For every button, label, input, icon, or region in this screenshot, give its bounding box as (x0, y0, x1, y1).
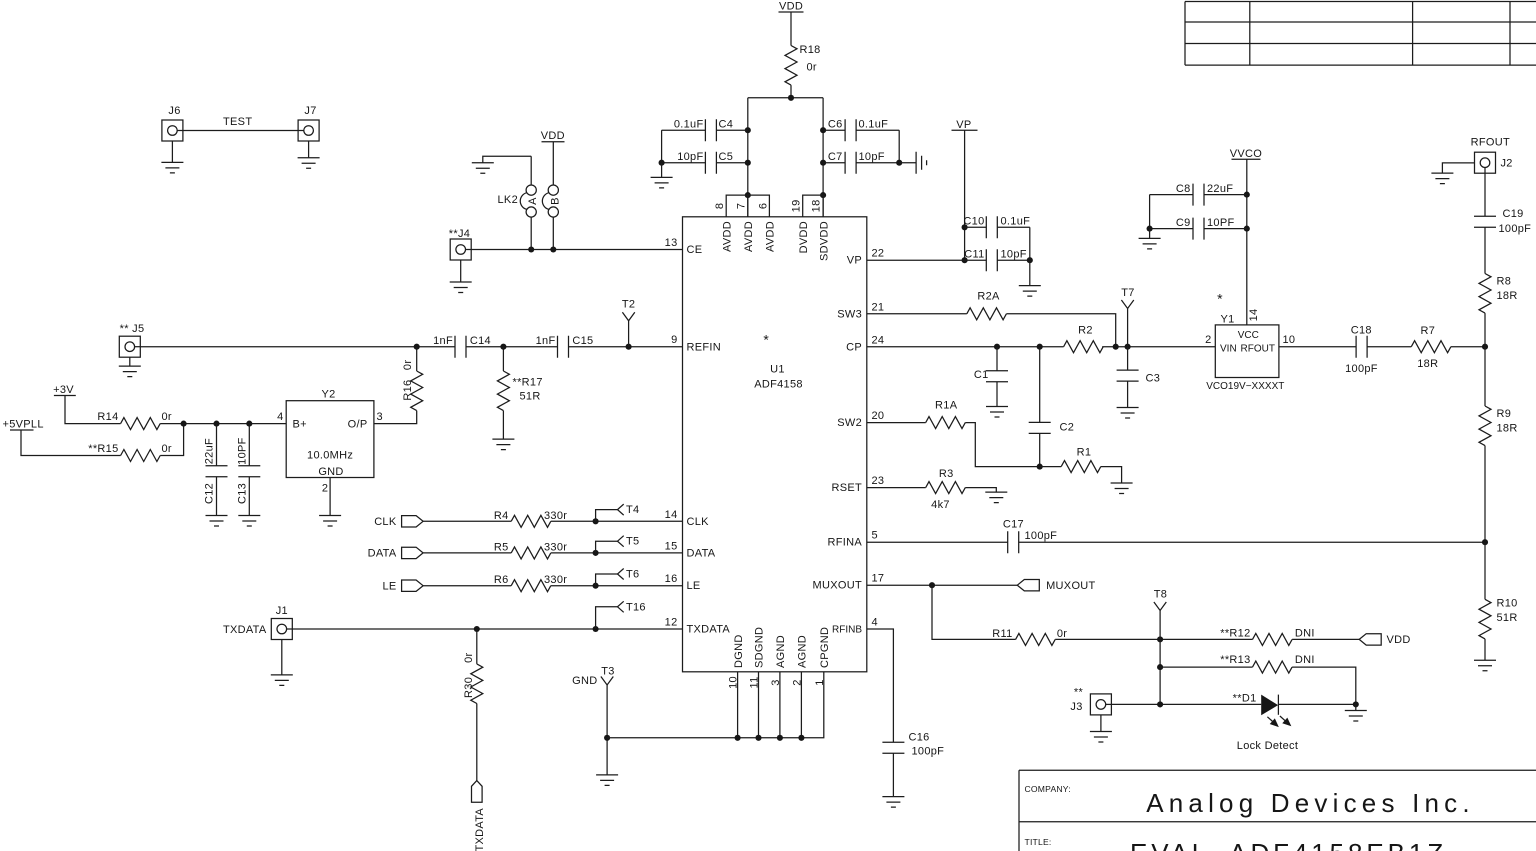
wire R18 to VDD rail (748, 85, 823, 98)
resistor R8 (1479, 274, 1518, 314)
svg-text:**R15: **R15 (88, 443, 118, 455)
wire +5VPLL to R15 (21, 430, 121, 456)
svg-text:RFOUT: RFOUT (1471, 137, 1510, 149)
ground C1 (986, 407, 1008, 418)
ground R3 (985, 492, 1007, 503)
wire C10-C11 right column (1029, 227, 1031, 260)
wire MUXOUT net (867, 584, 1018, 586)
svg-text:C13: C13 (236, 483, 248, 504)
ground J7 (298, 141, 320, 168)
svg-text:10pF: 10pF (1001, 249, 1027, 261)
diode D1 (LED Lock Detect) (1233, 693, 1299, 752)
wire SW2 net (867, 423, 1040, 467)
svg-text:**R13: **R13 (1220, 654, 1250, 666)
svg-text:J3: J3 (1070, 701, 1082, 713)
wire VP drop (964, 130, 966, 260)
wire R1 to ground (1101, 467, 1122, 483)
svg-text:**R12: **R12 (1220, 628, 1250, 640)
junction C7 right (896, 160, 902, 166)
svg-text:R1: R1 (1077, 447, 1092, 459)
svg-text:13: 13 (665, 237, 678, 249)
svg-text:CE: CE (687, 244, 703, 256)
svg-text:21: 21 (872, 301, 885, 313)
capacitor C14 (433, 335, 491, 358)
svg-text:EVAL−ADF4158EB1Z: EVAL−ADF4158EB1Z (1130, 838, 1447, 851)
wire node to R10 (1484, 542, 1486, 599)
resistor R16 (374, 347, 423, 424)
svg-text:7: 7 (736, 203, 748, 209)
wire CE net (471, 249, 682, 251)
svg-text:C8: C8 (1176, 183, 1191, 195)
junction C5 left (659, 160, 665, 166)
ground R1 (1111, 483, 1133, 494)
wire R8 to RF node (1484, 313, 1486, 347)
svg-text:R16: R16 (402, 380, 414, 401)
ground J6 (161, 141, 183, 173)
svg-text:REFIN: REFIN (687, 341, 722, 353)
capacitor C10 (963, 216, 1030, 239)
resistor R2 (1064, 325, 1104, 353)
svg-text:T2: T2 (622, 299, 635, 311)
wire C4-C5 left column (661, 130, 663, 163)
svg-text:COMPANY:: COMPANY: (1025, 784, 1071, 794)
wire RF node to R9 (1484, 347, 1486, 406)
svg-text:A: A (527, 197, 539, 205)
svg-text:C19: C19 (1503, 208, 1524, 220)
testpoint T3 GND (572, 666, 615, 775)
capacitor C18 (1345, 325, 1378, 376)
ground C11 (1019, 260, 1041, 296)
svg-text:VP: VP (847, 255, 862, 267)
oscillator Y2 10.0MHz (286, 389, 374, 479)
svg-text:CP: CP (846, 341, 862, 353)
svg-text:0r: 0r (162, 443, 172, 455)
capacitor C19 (1474, 208, 1531, 235)
testpoint T2 (622, 299, 635, 347)
capacitor C2 (1029, 347, 1074, 467)
svg-text:10PF: 10PF (236, 437, 248, 465)
svg-text:DVDD: DVDD (798, 221, 810, 253)
svg-text:4: 4 (872, 617, 878, 629)
wire right DVDD drop (822, 98, 824, 217)
testpoint T6 (596, 569, 640, 586)
junction R11 tap (929, 582, 935, 588)
junction C13 tap (246, 421, 252, 427)
svg-text:T8: T8 (1154, 589, 1167, 601)
junction C12 tap (213, 421, 219, 427)
svg-text:R9: R9 (1497, 408, 1512, 420)
svg-text:VDD: VDD (541, 130, 565, 142)
svg-text:*: * (1217, 291, 1223, 307)
svg-text:0r: 0r (402, 360, 414, 370)
ground J5 (119, 357, 141, 376)
resistor R1 (1061, 447, 1101, 473)
svg-text:330r: 330r (544, 574, 567, 586)
wire RFINA net right (1019, 541, 1485, 543)
svg-text:LK2: LK2 (498, 194, 518, 206)
svg-text:R30: R30 (463, 677, 475, 698)
wire R10 to ground (1484, 639, 1486, 660)
junction C2/R1 node (1037, 464, 1043, 470)
resistor R2A (967, 291, 1007, 320)
junction T5 tap (593, 550, 599, 556)
svg-text:22: 22 (872, 248, 885, 260)
testpoint T16 (596, 601, 646, 629)
svg-text:B: B (549, 197, 561, 205)
svg-text:Lock Detect: Lock Detect (1237, 740, 1298, 752)
junction C4 left drop (745, 127, 751, 133)
svg-text:DATA: DATA (687, 547, 716, 559)
op-amp U1 ADF4158 body (683, 217, 867, 672)
resistor R4 (494, 510, 567, 528)
svg-text:TEST: TEST (223, 116, 252, 128)
svg-text:TITLE:: TITLE: (1025, 837, 1052, 847)
junction T4 tap (593, 518, 599, 524)
svg-text:TXDATA: TXDATA (687, 624, 731, 636)
svg-text:C10: C10 (963, 216, 984, 228)
svg-text:20: 20 (872, 410, 885, 422)
wire R14 node to Y2 (160, 423, 286, 425)
svg-text:Analog Devices Inc.: Analog Devices Inc. (1146, 788, 1475, 818)
svg-text:TXDATA: TXDATA (223, 624, 267, 636)
wire R15 up to R14 node (160, 424, 183, 456)
ground Y2 (319, 478, 341, 527)
svg-text:J7: J7 (304, 105, 316, 117)
svg-text:T5: T5 (626, 536, 639, 548)
svg-text:R5: R5 (494, 541, 509, 553)
junction T8/R13 (1157, 664, 1163, 670)
capacitor C11 (964, 249, 1030, 272)
svg-text:5: 5 (872, 530, 878, 542)
svg-text:B+: B+ (293, 419, 307, 431)
junction DGND (735, 735, 741, 741)
resistor R7 (1411, 325, 1451, 370)
testpoint T8 (1154, 589, 1167, 705)
junction RFINA right node (1482, 539, 1488, 545)
junction SDVDD bus (820, 192, 826, 198)
svg-text:22uF: 22uF (204, 438, 216, 464)
junction T6 tap (593, 583, 599, 589)
svg-text:330r: 330r (544, 510, 567, 522)
ground J4 (450, 260, 472, 293)
svg-text:18: 18 (811, 199, 823, 212)
wire AVDD pin bus box (726, 195, 769, 217)
junction T3 bus (604, 735, 610, 741)
resistor R17 (497, 347, 542, 439)
wire C8-C9 left column (1149, 195, 1151, 229)
svg-text:10PF: 10PF (1207, 217, 1235, 229)
svg-text:10: 10 (1283, 334, 1296, 346)
node VDD (LK2 B) (541, 130, 565, 142)
svg-text:RFOUT: RFOUT (1241, 344, 1275, 355)
svg-text:** J5: ** J5 (120, 323, 145, 335)
resistor R18 (785, 44, 821, 85)
node +5VPLL (3, 419, 44, 431)
junction C11 tap (962, 257, 968, 263)
resistor R14 (97, 411, 172, 430)
svg-text:*: * (763, 332, 769, 348)
svg-text:J2: J2 (1501, 158, 1513, 170)
svg-text:23: 23 (872, 475, 885, 487)
junction C10 tap (962, 224, 968, 230)
svg-text:AVDD: AVDD (765, 221, 777, 252)
capacitor C1 (974, 347, 1008, 407)
svg-text:12: 12 (665, 617, 678, 629)
svg-text:C2: C2 (1060, 422, 1075, 434)
wire R11 to T8 to R12 (1055, 638, 1252, 640)
junction C11 right (1027, 257, 1033, 263)
svg-text:R1A: R1A (935, 400, 958, 412)
node VDD output flag (1359, 634, 1410, 646)
ground C8/C9 (1139, 229, 1161, 249)
junction C5 left drop (745, 160, 751, 166)
ground C16 (882, 797, 904, 808)
svg-text:SDGND: SDGND (754, 627, 766, 668)
wire DVDD pin bus box (803, 195, 823, 217)
svg-text:R18: R18 (800, 44, 821, 56)
svg-text:330r: 330r (544, 541, 567, 553)
svg-text:VCO19V−XXXXT: VCO19V−XXXXT (1206, 381, 1284, 392)
resistor R3 (926, 468, 966, 511)
svg-text:R11: R11 (992, 628, 1012, 640)
junction C9 left (1147, 226, 1153, 232)
resistor R5 (494, 541, 567, 559)
svg-text:18R: 18R (1497, 423, 1518, 435)
junction SDGND (755, 735, 761, 741)
capacitor C3 (1117, 347, 1161, 408)
svg-text:GND: GND (572, 675, 597, 687)
svg-text:DGND: DGND (733, 634, 745, 668)
svg-text:Y1: Y1 (1220, 314, 1234, 326)
oscillator Y1 VCO19V-XXXXT (1206, 309, 1284, 392)
svg-text:22uF: 22uF (1207, 183, 1233, 195)
wire C6-C7 right column (898, 130, 900, 163)
svg-text:SW3: SW3 (837, 308, 862, 320)
capacitor C16 (882, 732, 944, 797)
svg-text:2: 2 (1205, 334, 1211, 346)
junction T2 tap (626, 344, 632, 350)
svg-text:18R: 18R (1497, 290, 1518, 302)
node CLK input flag (374, 516, 423, 529)
svg-text:RSET: RSET (831, 482, 862, 494)
wire R7 to RF node (1451, 346, 1485, 348)
svg-text:T6: T6 (626, 569, 639, 581)
svg-text:VDD: VDD (1387, 634, 1411, 646)
svg-text:**: ** (1074, 687, 1084, 699)
ground J2 (1431, 163, 1474, 184)
svg-text:100pF: 100pF (912, 745, 945, 757)
junction LK2B on CE (550, 246, 556, 252)
revision table top right (1185, 2, 1536, 66)
svg-text:VDD: VDD (779, 1, 803, 13)
svg-text:ADF4158: ADF4158 (754, 379, 803, 391)
svg-text:R2: R2 (1078, 325, 1093, 337)
junction R14/R15 (181, 421, 187, 427)
svg-text:U1: U1 (770, 364, 785, 376)
node RFOUT connector J2 (1471, 137, 1513, 174)
wire left AVDD drop (747, 98, 749, 217)
connector J3 (1070, 687, 1111, 715)
jumper LK2 B (542, 142, 561, 250)
junction T7/C3 tap (1125, 344, 1131, 350)
wire TEST J6-J7 (183, 116, 298, 131)
svg-text:J6: J6 (168, 105, 180, 117)
ground C13 (238, 516, 260, 527)
svg-text:0.1uF: 0.1uF (674, 119, 704, 131)
capacitor C15 (536, 335, 594, 358)
junction AVDD bus (745, 192, 751, 198)
junction T16 tap (593, 626, 599, 632)
svg-text:R3: R3 (939, 468, 954, 480)
svg-text:C14: C14 (470, 335, 491, 347)
svg-text:C6: C6 (828, 119, 843, 131)
svg-text:AVDD: AVDD (721, 221, 733, 252)
wire Y1 RFOUT to C18 (1279, 346, 1356, 348)
wire CLK net (423, 520, 682, 522)
wire MUXOUT to R11 (932, 585, 1016, 639)
junction R30 tap (474, 626, 480, 632)
svg-text:T3: T3 (601, 666, 614, 678)
svg-text:SDVDD: SDVDD (818, 221, 830, 261)
svg-text:51R: 51R (1497, 612, 1518, 624)
wire CP net (867, 346, 1216, 348)
wire RFINA net left (867, 541, 1008, 543)
junction R16 tap (414, 344, 420, 350)
svg-text:100pF: 100pF (1025, 530, 1058, 542)
svg-text:C4: C4 (719, 119, 734, 131)
wire VDD to R18 (790, 12, 792, 46)
capacitor C13 (236, 424, 260, 516)
resistor R15 (88, 443, 172, 462)
svg-text:AGND: AGND (797, 635, 809, 668)
wire REFIN net segment 2 (466, 346, 558, 348)
ground J3 (1090, 715, 1112, 742)
svg-text:0r: 0r (807, 62, 817, 74)
svg-text:C15: C15 (572, 335, 593, 347)
junction T8/D1 (1157, 701, 1163, 707)
svg-text:MUXOUT: MUXOUT (1046, 580, 1095, 592)
ground R10 (1474, 660, 1496, 671)
resistor R13 (1220, 654, 1315, 673)
wire DATA net (423, 552, 682, 554)
junction R2A join (1113, 344, 1119, 350)
svg-text:CLK: CLK (687, 516, 710, 528)
svg-text:3: 3 (377, 411, 383, 423)
svg-text:R8: R8 (1497, 276, 1512, 288)
svg-text:DATA: DATA (368, 548, 397, 560)
node DATA input flag (368, 547, 424, 560)
ground R17 (492, 439, 514, 450)
svg-text:0.1uF: 0.1uF (1001, 216, 1031, 228)
svg-text:C7: C7 (828, 151, 843, 163)
svg-text:R7: R7 (1420, 325, 1435, 337)
svg-text:RFINB: RFINB (832, 625, 862, 636)
testpoint T7 (1121, 287, 1134, 347)
testpoint T4 (596, 504, 640, 521)
svg-text:17: 17 (872, 573, 885, 585)
svg-text:4: 4 (277, 411, 283, 423)
capacitor C7 (823, 151, 899, 174)
wire R13 row (1160, 667, 1356, 704)
svg-text:9: 9 (671, 334, 677, 346)
svg-text:0.1uF: 0.1uF (859, 119, 889, 131)
wire LE net (423, 585, 682, 587)
svg-text:LE: LE (382, 581, 396, 593)
svg-text:SW2: SW2 (837, 417, 862, 429)
wire REFIN net segment 1 (140, 346, 455, 348)
ground sideways at C7 (899, 152, 926, 174)
junction T8 on R12 row (1157, 636, 1163, 642)
svg-text:15: 15 (665, 540, 678, 552)
svg-text:100pF: 100pF (1345, 363, 1378, 375)
wire +3V to R14 (65, 396, 121, 424)
svg-text:**R17: **R17 (513, 377, 543, 389)
ground C4/C5 (651, 163, 673, 188)
junction AGND2 (798, 735, 804, 741)
svg-text:T4: T4 (626, 504, 639, 516)
svg-text:**J4: **J4 (449, 228, 470, 240)
svg-text:LE: LE (687, 580, 701, 592)
node +3V (53, 384, 76, 396)
node VP power (952, 119, 978, 131)
svg-text:10pF: 10pF (859, 151, 885, 163)
ground D1 (1345, 704, 1367, 721)
junction C7 right drop (820, 160, 826, 166)
svg-text:**D1: **D1 (1233, 693, 1257, 705)
ground T3 (596, 775, 618, 786)
junction rail center (788, 95, 794, 101)
resistor R6 (494, 574, 567, 592)
svg-text:14: 14 (1248, 309, 1260, 322)
svg-text:C3: C3 (1146, 373, 1161, 385)
connector J4 (449, 228, 471, 260)
wire VVCO drop to VCO (1246, 159, 1248, 325)
svg-text:O/P: O/P (348, 419, 368, 431)
svg-text:C18: C18 (1351, 325, 1372, 337)
jumper LK2 A (520, 156, 539, 249)
svg-text:C9: C9 (1176, 217, 1191, 229)
wire RFINB to C16 (867, 629, 894, 742)
svg-text:2: 2 (322, 483, 328, 495)
svg-text:8: 8 (714, 203, 726, 209)
junction RF node R8/R9 (1482, 344, 1488, 350)
svg-text:16: 16 (665, 573, 678, 585)
svg-text:T7: T7 (1121, 287, 1134, 299)
svg-text:R10: R10 (1497, 598, 1518, 610)
capacitor C8 (1150, 183, 1247, 206)
svg-text:VIN: VIN (1220, 344, 1237, 355)
svg-text:51R: 51R (520, 391, 541, 403)
node VVCO power (1230, 148, 1263, 160)
resistor R30 (463, 629, 483, 781)
svg-text:C17: C17 (1003, 519, 1024, 531)
connector J5 (119, 323, 144, 357)
testpoint T5 (596, 536, 640, 553)
title block border (1019, 770, 1536, 851)
svg-text:TXDATA: TXDATA (474, 808, 486, 851)
svg-text:10.0MHz: 10.0MHz (307, 450, 353, 462)
resistor R10 (1479, 598, 1518, 639)
svg-text:C1: C1 (974, 369, 989, 381)
wire C18 to R7 (1367, 346, 1411, 348)
svg-text:0r: 0r (162, 411, 172, 423)
wire REFIN net segment 3 (569, 346, 683, 348)
wire RSET net (867, 488, 997, 493)
resistor R1A (926, 400, 966, 429)
svg-text:VP: VP (956, 119, 971, 131)
svg-text:14: 14 (665, 509, 678, 521)
resistor R9 (1479, 406, 1518, 446)
